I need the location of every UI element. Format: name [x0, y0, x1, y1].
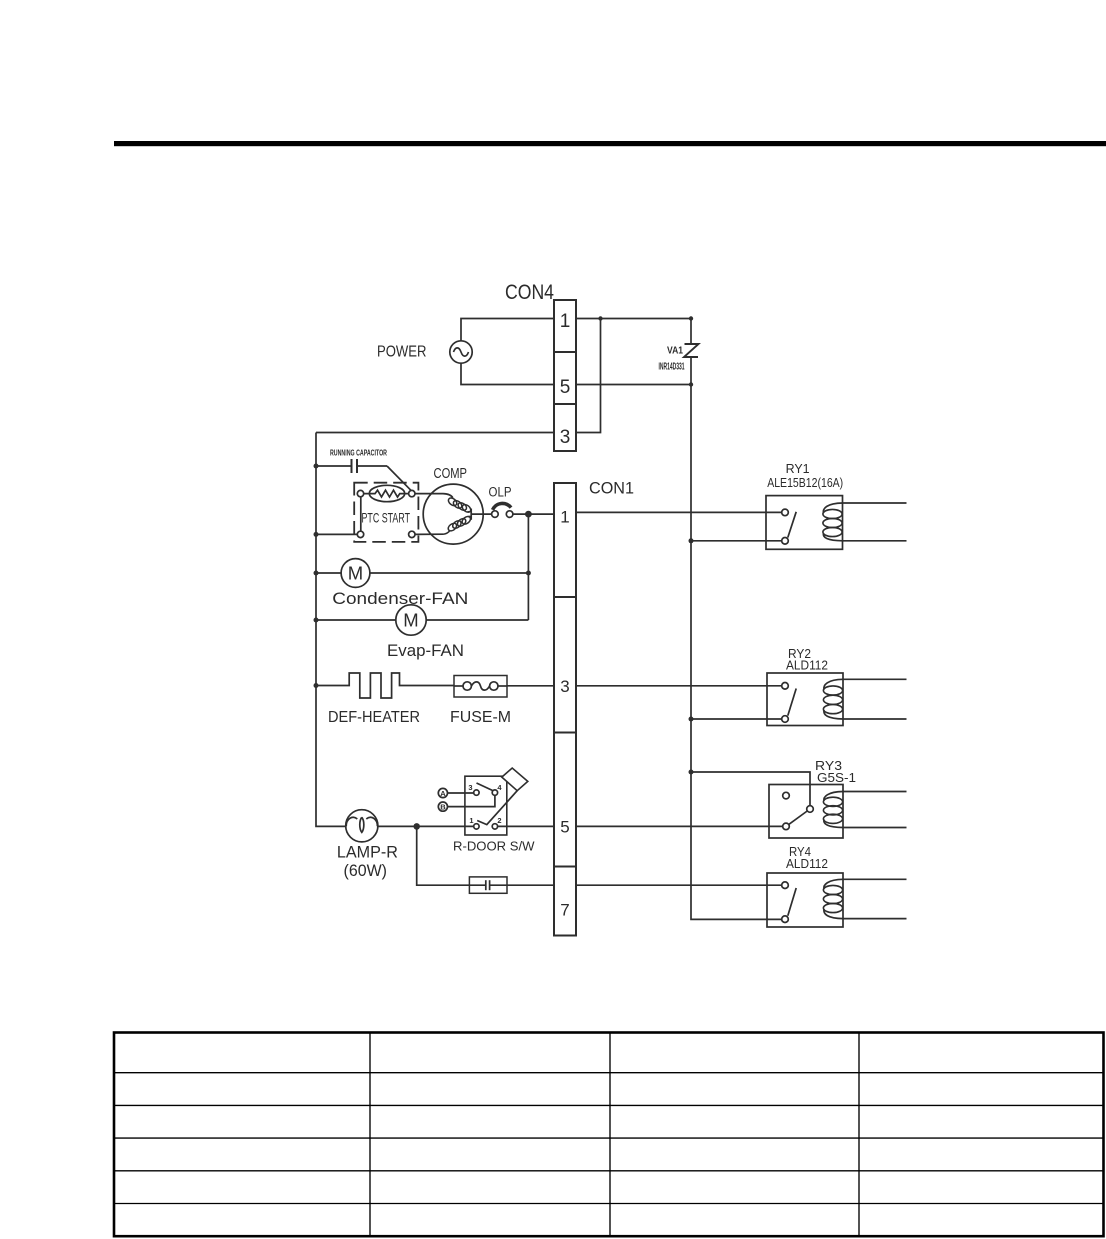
wire left bus [316, 433, 346, 827]
svg-text:3: 3 [560, 677, 569, 696]
svg-text:LAMP-R: LAMP-R [337, 843, 398, 861]
varistor VA1 symbol [684, 344, 699, 357]
PTC pin bottom-left [357, 531, 363, 537]
node evap fan tap [314, 618, 319, 623]
svg-text:3: 3 [560, 427, 571, 448]
wire comp right post [470, 509, 472, 520]
wire RY4 right bottom [843, 918, 907, 920]
connector CON4 [554, 300, 576, 451]
svg-text:CON4: CON4 [505, 281, 554, 304]
node VA1 bottom [689, 382, 693, 386]
wire fuse to CON1 pin3 [507, 685, 554, 687]
wire CON1 pin5 to RY3 [576, 825, 784, 827]
wire RY2 right bottom [843, 718, 907, 720]
svg-text:ALD112: ALD112 [786, 857, 828, 871]
wire RY1 right bottom [843, 540, 907, 542]
wire PTC left pins link [360, 497, 362, 531]
svg-text:PTC START: PTC START [362, 510, 411, 526]
svg-text:B: B [440, 802, 446, 811]
connector CON1 [554, 483, 576, 936]
wire RY1 right top [843, 502, 907, 504]
wire CON4 pin1 right [576, 318, 691, 320]
PTC START dashed box [354, 483, 418, 542]
capacitor door-damper [469, 877, 507, 893]
table grid [114, 1033, 1104, 1237]
svg-text:5: 5 [560, 377, 571, 398]
wire main right bus [691, 385, 782, 920]
capacitor running-capacitor [316, 459, 387, 473]
node running capacitor tap [314, 464, 319, 469]
wire evap fan row [316, 619, 396, 621]
wire door actuator rod [477, 791, 517, 825]
wire power bottom to CON4 pin5 [461, 363, 554, 384]
relay RY2 [767, 673, 843, 726]
node condenser fan right junction [526, 571, 531, 576]
heater DEF-HEATER element [316, 673, 454, 698]
wire pin1 down to pin3 [576, 319, 601, 433]
switch contact 3 [474, 790, 479, 795]
node PTC bottom tap [314, 532, 319, 537]
wire CON1 pin7 to RY4 [576, 884, 782, 886]
svg-text:POWER: POWER [377, 344, 427, 361]
wire A to contact 3 [448, 792, 474, 794]
switch contact 1 [474, 824, 479, 829]
node def heater tap [314, 683, 319, 688]
wire OLP to CON1 pin1 [513, 513, 554, 515]
switch contact 2 [492, 824, 497, 829]
svg-text:2: 2 [497, 816, 501, 825]
fuse FUSE-M [454, 676, 507, 698]
wire bus to RY3 coil-in [691, 772, 810, 806]
svg-text:1: 1 [560, 311, 571, 332]
svg-text:OLP: OLP [489, 485, 512, 500]
compressor COMP circle [423, 484, 483, 544]
svg-text:FUSE-M: FUSE-M [450, 709, 511, 726]
wire RY3 right top [843, 791, 907, 793]
OLP protector symbol [492, 503, 513, 517]
svg-text:DEF-HEATER: DEF-HEATER [328, 709, 420, 726]
wire comp bottom lead [415, 533, 443, 535]
horizontal page rule [114, 141, 1106, 146]
svg-text:CON1: CON1 [589, 479, 634, 498]
svg-text:(60W): (60W) [344, 862, 388, 880]
svg-text:A: A [440, 789, 446, 798]
svg-text:M: M [348, 563, 363, 584]
wire B to contact 4 [448, 795, 495, 806]
svg-text:1: 1 [469, 816, 473, 825]
svg-text:5: 5 [560, 818, 569, 837]
svg-text:INR14D331: INR14D331 [659, 361, 685, 373]
svg-text:Evap-FAN: Evap-FAN [387, 641, 464, 660]
PTC resistor ellipse [369, 485, 404, 501]
relay RY1 [766, 496, 843, 550]
node condenser fan tap [314, 571, 319, 576]
svg-text:G5S-1: G5S-1 [817, 771, 856, 785]
resistor PTC zigzag [364, 490, 409, 497]
coil comp lower winding [443, 515, 472, 534]
wire contact 2 to CON1 pin5 [498, 825, 554, 827]
motor evap fan [396, 605, 426, 635]
door actuator square [502, 768, 528, 791]
svg-text:M: M [403, 610, 418, 631]
AC source symbol [450, 341, 472, 363]
svg-text:1: 1 [560, 508, 569, 527]
relay RY4 [767, 873, 843, 927]
coil comp upper winding [447, 496, 472, 513]
wire VA1 leads [690, 319, 692, 345]
switch contact 4 [492, 790, 497, 795]
svg-text:3: 3 [468, 783, 472, 792]
svg-text:VA1: VA1 [667, 346, 683, 357]
wire bus to RY2 coil bottom [691, 718, 782, 720]
node VA1 top [689, 316, 693, 320]
svg-text:ALE15B12(16A): ALE15B12(16A) [767, 476, 843, 490]
svg-text:7: 7 [560, 901, 569, 920]
wire PTC to comp top lead [415, 494, 453, 498]
wire capacitor to CON1 pin7 [507, 884, 554, 886]
lever top switch [477, 783, 493, 791]
node lamp junction [413, 823, 420, 830]
svg-text:4: 4 [497, 783, 502, 792]
motor condenser fan [341, 559, 370, 588]
wire OLP junction down [527, 514, 529, 620]
svg-text:Condenser-FAN: Condenser-FAN [332, 589, 468, 608]
wire RY2 right top [843, 678, 907, 680]
wire lamp to door switch [378, 825, 474, 827]
wire PTC bottom row [316, 533, 357, 535]
wire bus to RY1 coil bottom [691, 540, 782, 542]
terminal B [438, 802, 447, 811]
lamp LAMP-R [346, 810, 378, 842]
wire capacitor to PTC diagonal [387, 466, 411, 491]
PTC pin top-right [409, 490, 415, 496]
terminal A [438, 788, 447, 797]
wire RY3 right bottom [843, 827, 907, 829]
node bus RY1 [689, 538, 694, 543]
switch R-DOOR S/W box [465, 776, 507, 835]
wire power top to CON4 pin1 [461, 319, 554, 341]
svg-text:ALD112: ALD112 [786, 659, 828, 673]
wire CON1 pin3 to RY2 [576, 685, 782, 687]
relay RY3 [769, 785, 843, 839]
node junction pin1 [598, 316, 602, 320]
node bus RY3 [689, 770, 694, 775]
wire condenser fan row [316, 572, 341, 574]
wire comp to OLP [471, 513, 492, 515]
node bus RY2 [689, 717, 694, 722]
svg-text:COMP: COMP [434, 466, 468, 482]
PTC pin bottom-right [409, 531, 415, 537]
svg-text:R-DOOR S/W: R-DOOR S/W [453, 839, 535, 853]
wire lamp junction down [417, 826, 470, 885]
wire CON4 pin3 left to left bus [316, 432, 554, 434]
wire CON4 pin5 right [576, 384, 691, 386]
wire CON1 pin1 to RY1 [576, 511, 782, 513]
node OLP junction [525, 511, 532, 518]
PTC pin top-left [357, 490, 363, 496]
svg-text:RUNNING CAPACITOR: RUNNING CAPACITOR [330, 448, 387, 458]
svg-text:RY1: RY1 [786, 461, 810, 476]
wire RY4 right top [843, 878, 907, 880]
